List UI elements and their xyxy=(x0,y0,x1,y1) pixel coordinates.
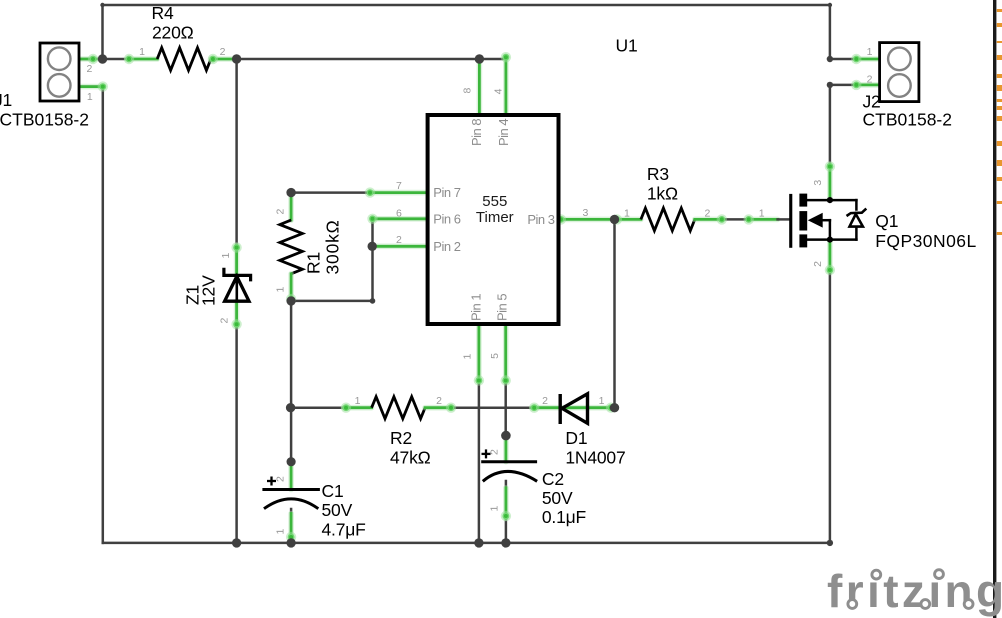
svg-text:2: 2 xyxy=(86,63,92,75)
svg-text:C1: C1 xyxy=(322,481,344,501)
svg-text:1: 1 xyxy=(624,208,630,220)
svg-text:300kΩ: 300kΩ xyxy=(323,219,343,274)
svg-text:Pin 8: Pin 8 xyxy=(469,119,484,146)
svg-text:CTB0158-2: CTB0158-2 xyxy=(863,110,953,130)
svg-text:Pin 1: Pin 1 xyxy=(469,294,484,321)
svg-text:2: 2 xyxy=(436,395,442,407)
svg-text:Pin 3: Pin 3 xyxy=(527,212,554,227)
svg-text:1: 1 xyxy=(355,395,361,407)
svg-text:1N4007: 1N4007 xyxy=(565,448,625,468)
svg-text:6: 6 xyxy=(396,207,402,219)
svg-text:2: 2 xyxy=(274,476,286,482)
svg-text:47kΩ: 47kΩ xyxy=(390,448,431,468)
svg-text:1: 1 xyxy=(220,253,232,259)
svg-text:R2: R2 xyxy=(390,428,412,448)
svg-text:1: 1 xyxy=(275,287,287,293)
svg-text:1kΩ: 1kΩ xyxy=(647,184,678,204)
svg-text:12V: 12V xyxy=(199,275,219,306)
svg-text:7: 7 xyxy=(396,180,402,192)
svg-text:Pin 6: Pin 6 xyxy=(433,211,460,226)
svg-text:50V: 50V xyxy=(322,500,353,520)
svg-text:4: 4 xyxy=(493,88,505,94)
svg-text:CTB0158-2: CTB0158-2 xyxy=(0,110,89,130)
svg-text:5: 5 xyxy=(489,353,501,359)
svg-text:J1: J1 xyxy=(0,90,12,110)
svg-text:Q1: Q1 xyxy=(875,211,898,231)
svg-text:2: 2 xyxy=(275,209,287,215)
svg-text:1: 1 xyxy=(759,208,765,220)
svg-text:2: 2 xyxy=(489,449,501,455)
svg-text:2: 2 xyxy=(396,234,402,246)
svg-text:50V: 50V xyxy=(542,488,573,508)
svg-text:2: 2 xyxy=(812,261,824,267)
svg-text:1: 1 xyxy=(867,46,873,58)
svg-text:1: 1 xyxy=(599,395,605,407)
svg-text:2: 2 xyxy=(867,74,873,86)
svg-text:FQP30N06L: FQP30N06L xyxy=(875,231,976,251)
svg-text:0.1μF: 0.1μF xyxy=(542,507,586,527)
svg-text:4.7μF: 4.7μF xyxy=(322,519,366,539)
svg-text:D1: D1 xyxy=(565,428,587,448)
svg-text:1: 1 xyxy=(139,46,145,58)
svg-text:Pin 7: Pin 7 xyxy=(433,185,460,200)
svg-text:J2: J2 xyxy=(863,92,881,112)
svg-text:3: 3 xyxy=(582,207,588,219)
svg-text:1: 1 xyxy=(87,91,93,103)
svg-text:U1: U1 xyxy=(616,36,638,56)
svg-text:1: 1 xyxy=(489,506,501,512)
svg-text:1: 1 xyxy=(461,354,473,360)
svg-text:220Ω: 220Ω xyxy=(152,23,194,43)
svg-text:2: 2 xyxy=(219,318,231,324)
svg-text:Pin 5: Pin 5 xyxy=(495,294,510,321)
svg-text:8: 8 xyxy=(462,88,474,94)
svg-text:C2: C2 xyxy=(542,469,564,489)
svg-text:2: 2 xyxy=(542,395,548,407)
svg-text:2: 2 xyxy=(220,46,226,58)
svg-text:3: 3 xyxy=(812,180,824,186)
svg-text:Timer: Timer xyxy=(476,209,514,226)
svg-text:Pin 2: Pin 2 xyxy=(433,239,460,254)
svg-text:R3: R3 xyxy=(647,164,669,184)
svg-text:555: 555 xyxy=(482,193,507,210)
svg-text:2: 2 xyxy=(704,208,710,220)
svg-text:R1: R1 xyxy=(304,252,324,274)
svg-text:R4: R4 xyxy=(152,3,174,23)
svg-text:1: 1 xyxy=(274,529,286,535)
svg-text:Pin 4: Pin 4 xyxy=(496,119,511,146)
